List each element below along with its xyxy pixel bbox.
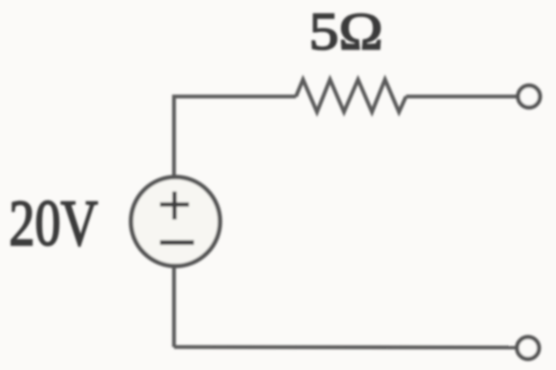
svg-text:5Ω: 5Ω xyxy=(309,3,383,61)
terminal b (bottom right open circle) xyxy=(517,337,539,359)
voltage source V1 (20V) circle xyxy=(131,177,220,266)
minus sign of source xyxy=(160,240,194,244)
terminal a (top right open circle) xyxy=(518,86,540,108)
wire: bottom horizontal to bottom terminal xyxy=(174,345,517,349)
plus sign of source xyxy=(160,202,189,206)
svg-text:20V: 20V xyxy=(9,187,98,260)
wire: resistor to top terminal xyxy=(406,95,517,99)
resistor R (5 ohm) zigzag xyxy=(296,80,406,113)
wire: top-left horizontal from corner to resistor xyxy=(174,97,296,348)
